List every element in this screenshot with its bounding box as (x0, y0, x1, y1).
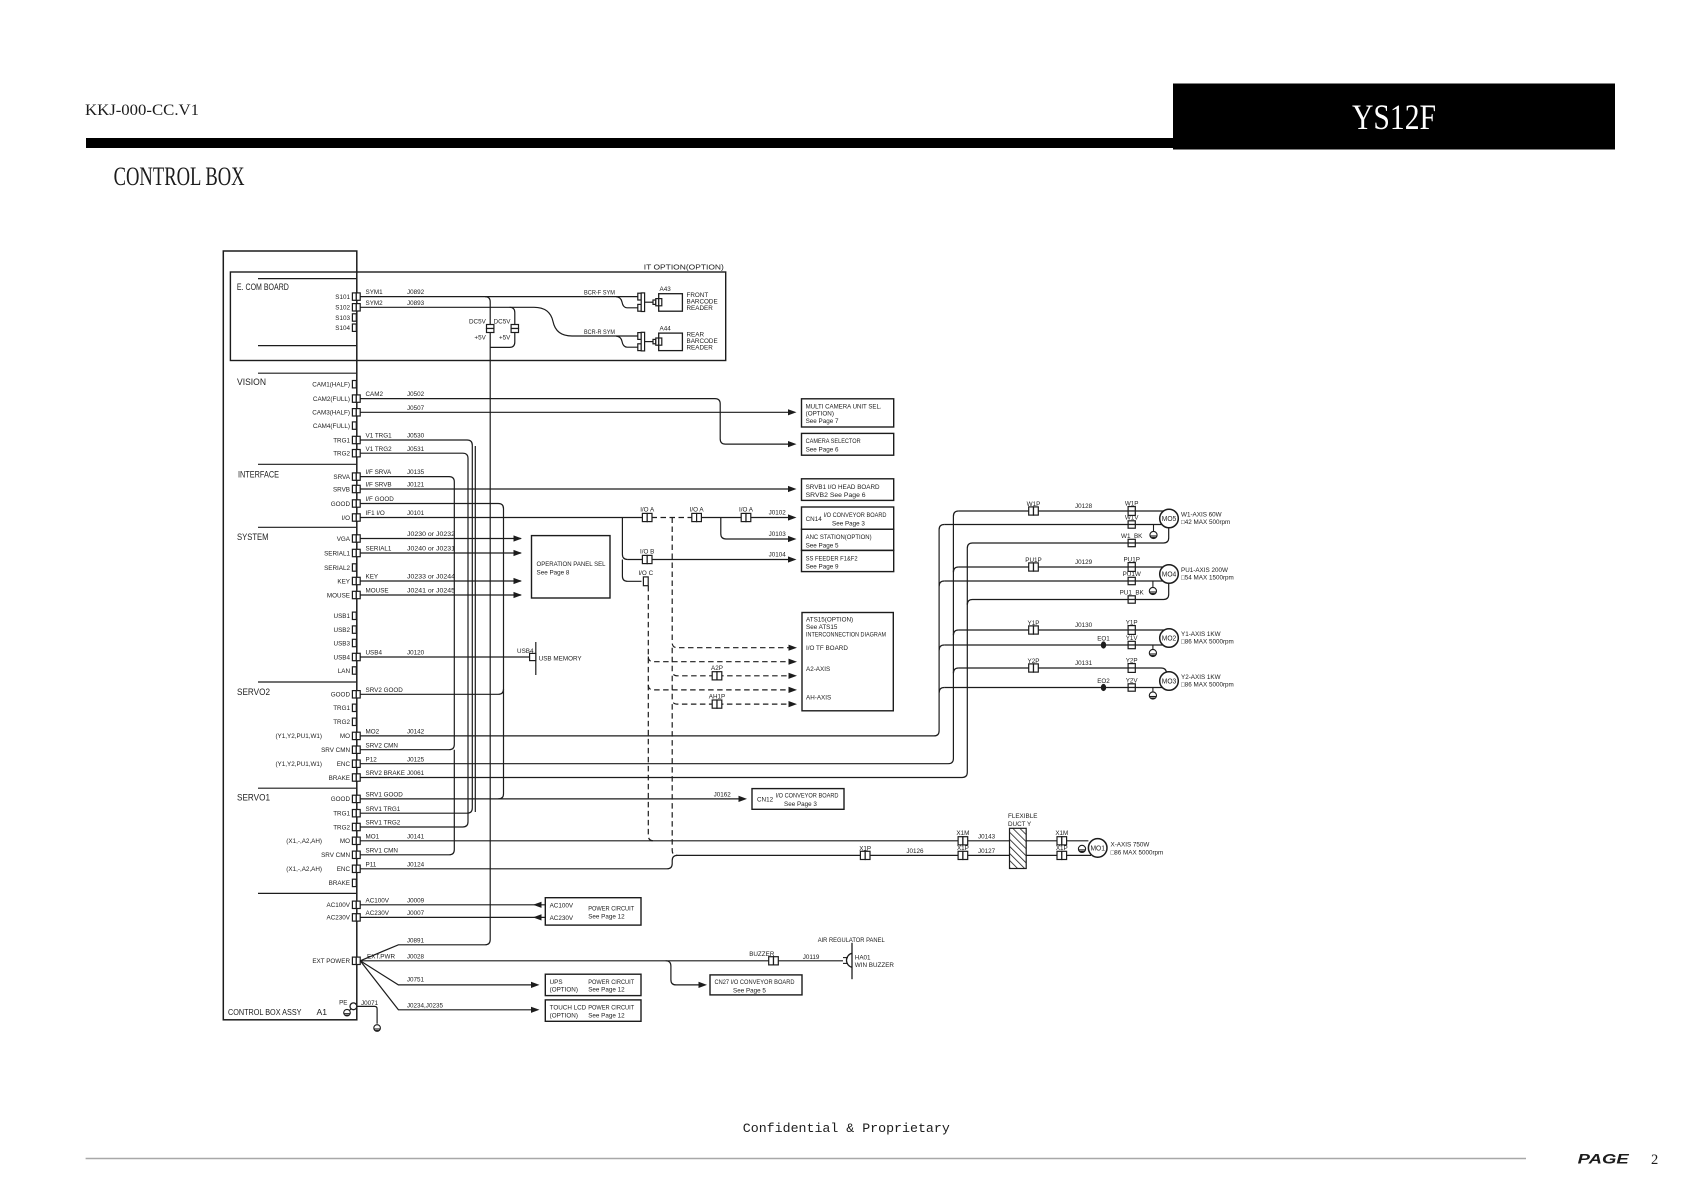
wire W1P power row J0128 (959, 510, 1164, 512)
svg-text:POWER CIRCUIT: POWER CIRCUIT (588, 979, 634, 986)
motor MO1 (1088, 839, 1107, 858)
branch of MO2 bus to Y1V row (939, 645, 944, 650)
svg-text:UPS: UPS (550, 979, 563, 986)
box SRVB1/SRVB2 I/O HEAD BOARD (802, 479, 894, 501)
svg-text:BRAKE: BRAKE (329, 880, 350, 887)
svg-text:INTERFACE: INTERFACE (238, 470, 279, 480)
ground symbol for MO4 (1152, 581, 1154, 588)
svg-text:TRG1: TRG1 (333, 811, 350, 818)
svg-text:CAM1(HALF): CAM1(HALF) (312, 382, 350, 389)
section divider SERVO1 (258, 787, 356, 789)
svg-text:S101: S101 (335, 294, 350, 301)
wire V1 TRG1 J0530 (vision TRG1 to SERVO1 TRG1) (360, 440, 472, 813)
svg-text:W1V: W1V (1125, 515, 1139, 522)
box CN12 I/O CONVEYOR BOARD (752, 789, 844, 810)
DC5V tap from SYM2 (490, 307, 515, 347)
svg-text:W1P: W1P (1125, 500, 1139, 507)
svg-text:I/O CONVEYOR BOARD: I/O CONVEYOR BOARD (776, 793, 839, 800)
svg-text:ANC STATION(OPTION): ANC STATION(OPTION) (806, 534, 872, 541)
flexible duct hatched block (1010, 828, 1027, 868)
wire W1V row (944, 524, 1162, 526)
svg-text:DUCT Y: DUCT Y (1008, 821, 1032, 828)
section divider SERVO2 (258, 681, 356, 683)
svg-text:USB4: USB4 (334, 654, 351, 661)
connector X1M (mid pair upper) (958, 837, 968, 845)
buzzer HA01 symbol (half circle) (846, 953, 852, 967)
wire I/F GOOD (to SRV2 GOOD / SRV1 GOOD bus) (360, 504, 503, 799)
svg-text:See Page 6: See Page 6 (806, 447, 839, 454)
svg-text:SERIAL2: SERIAL2 (324, 565, 350, 572)
motor MO2 (1160, 629, 1179, 648)
branch of P12 bus to Y2P row (953, 668, 958, 673)
svg-text:I/F SRVA: I/F SRVA (366, 469, 392, 476)
svg-text:See ATS15: See ATS15 (806, 624, 838, 631)
svg-text:MO: MO (340, 838, 350, 845)
wire Y1P power row J0130 (959, 629, 1165, 631)
svg-text:SRV1 CMN: SRV1 CMN (366, 847, 399, 854)
connector I/O C (single) (643, 577, 648, 586)
svg-text:(X1,-,A2,AH): (X1,-,A2,AH) (286, 866, 322, 873)
svg-text:P12: P12 (366, 756, 378, 763)
footer: rule (86, 1158, 1526, 1160)
svg-text:LAN: LAN (338, 668, 351, 675)
svg-text:CN27 I/O CONVEYOR BOARD: CN27 I/O CONVEYOR BOARD (715, 979, 795, 986)
svg-text:See Page 12: See Page 12 (588, 1012, 625, 1019)
svg-text:TRG2: TRG2 (333, 451, 350, 458)
svg-text:AC230V: AC230V (327, 915, 351, 922)
svg-text:DC5V: DC5V (469, 318, 487, 325)
connector Y1P (right) (1128, 626, 1135, 635)
connector Y2P (left) on row (1029, 664, 1039, 672)
svg-text:J0009: J0009 (407, 897, 425, 904)
svg-text:MO1: MO1 (1090, 844, 1105, 853)
USB MEMORY stub (535, 642, 537, 675)
header: thick black rule (86, 138, 1615, 148)
svg-text:ENC: ENC (337, 761, 351, 768)
svg-text:CN14: CN14 (806, 516, 823, 523)
svg-text:J0891: J0891 (407, 938, 425, 945)
svg-text:CN12: CN12 (757, 797, 774, 804)
wire IF1 I/O J0101 (to CN14 I/O conveyor board) (360, 517, 647, 519)
wire SRV2 BRAKE J0061 (brake bus, feeds W1_BK/PU1_BK) (360, 543, 972, 778)
wire I/F SRVB J0121 (to I/O head board) (360, 488, 788, 490)
svg-text:SYSTEM: SYSTEM (237, 532, 269, 542)
svg-text:MO1: MO1 (366, 833, 380, 840)
svg-text:J0028: J0028 (407, 953, 425, 960)
box CN14 I/O CONVEYOR BOARD (802, 507, 894, 529)
wire SERIAL1 J0240 or J0231 (360, 552, 521, 554)
svg-text:□86 MAX 5000rpm: □86 MAX 5000rpm (1181, 682, 1234, 689)
svg-text:PU1_BK: PU1_BK (1120, 590, 1145, 597)
svg-text:CONTROL BOX ASSY: CONTROL BOX ASSY (228, 1007, 302, 1017)
box MULTI CAMERA UNIT SEL (802, 399, 894, 427)
connector Y2V (1128, 684, 1135, 691)
wire P12 J0125 (servo2 encoder bus, feeds W1P/PU1P/Y1P/Y2P) (360, 511, 958, 764)
svg-text:+5V: +5V (499, 335, 511, 342)
svg-text:X-AXIS 750W: X-AXIS 750W (1111, 842, 1150, 849)
svg-text:MO3: MO3 (1162, 677, 1177, 686)
svg-text:AC100V: AC100V (327, 902, 351, 909)
svg-text:X1P: X1P (957, 845, 969, 852)
svg-text:See Page 7: See Page 7 (806, 418, 839, 425)
svg-text:V1 TRG1: V1 TRG1 (366, 433, 393, 440)
connector Y1P (left) on row (1029, 626, 1039, 634)
IT OPTION enclosure box (230, 272, 725, 361)
svg-text:J0128: J0128 (1075, 503, 1093, 510)
svg-text:SRV CMN: SRV CMN (321, 747, 350, 754)
svg-text:USB2: USB2 (334, 627, 351, 634)
wire MO2 J0142 (servo2 motor bus, feeds W1V/PU1W/Y1V/Y2V) (360, 525, 944, 736)
svg-text:J0135: J0135 (407, 469, 425, 476)
svg-text:See Page 3: See Page 3 (784, 801, 817, 808)
splice EO1 (1101, 641, 1106, 648)
wire J0751 (to UPS power circuit) (360, 961, 534, 985)
box A44 barcode reader (659, 333, 683, 351)
svg-text:W1-AXIS 60W: W1-AXIS 60W (1181, 511, 1222, 518)
svg-text:J0240 or J0231: J0240 or J0231 (407, 546, 456, 553)
svg-text:(X1,-,A2,AH): (X1,-,A2,AH) (286, 838, 322, 845)
svg-text:EXT POWER: EXT POWER (312, 958, 350, 965)
svg-text:KKJ-000-CC.V1: KKJ-000-CC.V1 (85, 102, 199, 119)
svg-text:J0233 or J0244: J0233 or J0244 (407, 574, 456, 581)
svg-text:PAGE: PAGE (1578, 1152, 1630, 1167)
svg-text:2: 2 (1651, 1152, 1658, 1168)
svg-text:Y2V: Y2V (1126, 678, 1139, 685)
svg-text:J0061: J0061 (407, 770, 425, 777)
svg-text:(Y1,Y2,PU1,W1): (Y1,Y2,PU1,W1) (275, 733, 322, 740)
box OPERATION PANEL SEL (532, 536, 611, 598)
svg-text:I/O: I/O (342, 515, 350, 522)
svg-text:TRG2: TRG2 (333, 824, 350, 831)
svg-text:I/O A: I/O A (640, 507, 655, 514)
ground symbol for MO2 (1152, 645, 1154, 650)
svg-text:J0241 or J0245: J0241 or J0245 (407, 588, 456, 595)
connector Y2P (right) (1128, 664, 1135, 673)
svg-text:J0007: J0007 (407, 910, 425, 917)
connector W1P (right) (1128, 507, 1135, 516)
dashed axis bus A (I/O C to ATS15 rows / MO1 wire) (648, 586, 653, 841)
wire Y1V row (944, 644, 1163, 646)
svg-text:PE: PE (339, 999, 347, 1006)
DC5V connector 1 (487, 325, 494, 333)
svg-text:J0124: J0124 (407, 861, 425, 868)
svg-text:See Page 5: See Page 5 (806, 543, 839, 550)
svg-text:J0143: J0143 (978, 833, 996, 840)
motor MO4 (1160, 565, 1179, 584)
svg-text:A44: A44 (660, 326, 672, 333)
svg-text:I/F GOOD: I/F GOOD (366, 496, 395, 503)
svg-text:SRV2 BRAKE: SRV2 BRAKE (366, 770, 405, 777)
connector pair to A44 barcode reader (638, 332, 645, 351)
svg-text:USB4: USB4 (366, 650, 383, 657)
connector I/O A #2 (692, 513, 702, 521)
svg-text:USB3: USB3 (334, 640, 351, 647)
svg-text:SRVB: SRVB (333, 486, 350, 493)
svg-text:EO1: EO1 (1097, 635, 1110, 642)
svg-text:SERIAL1: SERIAL1 (324, 550, 350, 557)
svg-text:J0507: J0507 (407, 405, 425, 412)
svg-text:I/O A: I/O A (690, 507, 705, 514)
connector PU1_BK (1128, 596, 1135, 603)
svg-text:+5V: +5V (474, 335, 486, 342)
DC5V tap from SYM1 (long +5V feed line down to J0891) (360, 297, 490, 961)
branch of MO2 bus to PU1W row (939, 581, 944, 586)
svg-text:X1M: X1M (956, 830, 969, 837)
svg-text:AH1P: AH1P (709, 694, 725, 701)
svg-text:See Page 12: See Page 12 (588, 913, 625, 920)
svg-text:PU1P: PU1P (1123, 556, 1139, 563)
svg-text:I/O C: I/O C (638, 570, 653, 577)
svg-text:I/F SRVB: I/F SRVB (366, 482, 392, 489)
svg-text:PU1-AXIS 200W: PU1-AXIS 200W (1181, 567, 1228, 574)
svg-text:A2P: A2P (711, 665, 723, 672)
svg-text:BUZZER: BUZZER (749, 951, 775, 958)
svg-text:W1_BK: W1_BK (1121, 533, 1143, 540)
svg-text:A43: A43 (660, 286, 672, 293)
svg-text:J0892: J0892 (407, 289, 425, 296)
section divider POWER (258, 892, 356, 894)
svg-text:Y2P: Y2P (1028, 658, 1040, 665)
svg-text:SRVB2 See Page 6: SRVB2 See Page 6 (806, 492, 867, 499)
svg-text:J0131: J0131 (1075, 660, 1093, 667)
section divider SYSTEM (258, 526, 356, 528)
box CAMERA SELECTOR (802, 433, 894, 455)
svg-text:SRV1 TRG2: SRV1 TRG2 (366, 820, 401, 827)
svg-text:S103: S103 (335, 315, 350, 322)
svg-text:J0234,J0235: J0234,J0235 (407, 1002, 444, 1009)
connector PU1P (right) (1128, 563, 1135, 572)
wire W1_BK brake row (973, 528, 1169, 543)
wire CAM2 J0502 (to camera selector) (360, 399, 788, 445)
svg-text:MO4: MO4 (1162, 570, 1177, 579)
connector A2P on dashed A2-AXIS row (712, 672, 722, 680)
wire KEY J0233 or J0244 (360, 580, 521, 582)
svg-text:J0130: J0130 (1075, 622, 1093, 629)
svg-text:CAM2(FULL): CAM2(FULL) (313, 396, 350, 403)
svg-text:J0893: J0893 (407, 300, 425, 307)
box TOUCH LCD POWER CIRCUIT (545, 1000, 641, 1021)
svg-text:X1P: X1P (859, 846, 871, 853)
svg-text:X1P: X1P (1056, 845, 1068, 852)
connector I/O B (642, 555, 652, 563)
svg-text:INTERCONNECTION DIAGRAM: INTERCONNECTION DIAGRAM (806, 632, 886, 639)
svg-text:J0530: J0530 (407, 433, 425, 440)
svg-text:TOUCH LCD: TOUCH LCD (550, 1005, 587, 1012)
svg-text:TRG1: TRG1 (333, 705, 350, 712)
branch from I/O wire down to I/O B and I/O C (622, 518, 627, 560)
svg-text:EO2: EO2 (1097, 678, 1110, 685)
svg-text:CAM3(HALF): CAM3(HALF) (312, 410, 350, 417)
connector AH1P on dashed AH-AXIS row (712, 700, 722, 708)
wire J0234,J0235 (to touch LCD power circuit) (360, 961, 534, 1010)
box POWER CIRCUIT (AC) (545, 898, 641, 925)
svg-text:CONTROL BOX: CONTROL BOX (114, 162, 245, 191)
svg-text:CAM2: CAM2 (366, 391, 384, 398)
svg-text:HA01: HA01 (855, 955, 871, 962)
PE earth wire (357, 1006, 377, 1023)
svg-text:See Page 9: See Page 9 (806, 564, 839, 571)
connector pair to A43 barcode reader (638, 293, 645, 312)
svg-text:□86 MAX 5000rpm: □86 MAX 5000rpm (1111, 849, 1164, 856)
air regulator panel bar (851, 943, 853, 979)
wire PU1P power row J0129 (959, 566, 1163, 568)
svg-text:ENC: ENC (337, 866, 351, 873)
svg-text:J0126: J0126 (906, 848, 924, 855)
wire V1 TRG2 J0531 (vision TRG2 to SERVO1 TRG2) (360, 453, 468, 827)
svg-text:See Page 12: See Page 12 (588, 987, 625, 994)
svg-text:Y1-AXIS 1KW: Y1-AXIS 1KW (1181, 631, 1221, 638)
connector PU1P (left) on row (1029, 563, 1039, 571)
svg-text:SRVB1 I/O HEAD BOARD: SRVB1 I/O HEAD BOARD (806, 484, 880, 491)
wire SYM1 J0892 (S101 to front barcode reader) (360, 296, 638, 298)
wire EXT.PWR J0028 (to buzzer and CN27) (360, 960, 843, 962)
svg-text:FLEXIBLE: FLEXIBLE (1008, 813, 1037, 820)
svg-text:(Y1,Y2,PU1,W1): (Y1,Y2,PU1,W1) (275, 761, 322, 768)
wire AC230V J0007 (from power circuit) (360, 916, 545, 918)
svg-text:SERIAL1: SERIAL1 (366, 546, 392, 553)
wire I/F SRVA J0135 (to SRV CMN bus) (360, 477, 454, 750)
svg-text:S104: S104 (335, 325, 350, 332)
wire VGA J0230 or J0232 (to operation panel) (360, 538, 521, 540)
svg-text:I/O CONVEYOR BOARD: I/O CONVEYOR BOARD (824, 512, 887, 519)
svg-text:(OPTION): (OPTION) (806, 410, 834, 417)
svg-text:S102: S102 (335, 305, 350, 312)
svg-text:See Page 3: See Page 3 (832, 520, 865, 527)
svg-text:TRG1: TRG1 (333, 437, 350, 444)
PE earth stub (350, 1009, 352, 1011)
svg-text:AH-AXIS: AH-AXIS (806, 695, 831, 702)
svg-text:J0141: J0141 (407, 833, 425, 840)
svg-text:READER: READER (687, 345, 714, 352)
svg-text:J0129: J0129 (1075, 559, 1093, 566)
svg-text:Y1V: Y1V (1126, 635, 1139, 642)
svg-text:SRV2 CMN: SRV2 CMN (366, 742, 399, 749)
box CN27 I/O CONVEYOR BOARD (710, 975, 802, 995)
svg-text:J0502: J0502 (407, 391, 425, 398)
wire SRV1 GOOD J0162 (to CN12 I/O conveyor board) (360, 798, 738, 800)
connector W1V (1128, 521, 1135, 528)
wire MO1 J0141 (X-axis motor power) (360, 840, 1088, 842)
svg-text:J0162: J0162 (714, 791, 732, 798)
dashed axis bus B (I/O A to I/O TF board, A2/AH rows, X encoder wire) (672, 518, 788, 648)
svg-text:AC230V: AC230V (550, 915, 574, 922)
svg-text:VISION: VISION (237, 377, 266, 387)
branch from I/O wire to ANC STATION J0103 (721, 518, 789, 540)
svg-text:AIR REGULATOR PANEL: AIR REGULATOR PANEL (818, 937, 885, 944)
connector Y1V (1128, 641, 1135, 648)
connector X1P (mid pair lower) (958, 851, 968, 859)
svg-text:OPERATION PANEL SEL: OPERATION PANEL SEL (537, 561, 606, 568)
box UPS POWER CIRCUIT (545, 974, 641, 995)
svg-text:USB4: USB4 (517, 648, 534, 655)
svg-text:GOOD: GOOD (331, 692, 351, 699)
dashed branch to ATS15 row 1 (648, 657, 788, 662)
svg-text:IT OPTION(OPTION): IT OPTION(OPTION) (644, 262, 724, 271)
splice EO2 (1101, 684, 1106, 691)
svg-text:V1 TRG2: V1 TRG2 (366, 446, 393, 453)
box SS FEEDER F1&F2 (802, 550, 894, 571)
svg-text:Confidential & Proprietary: Confidential & Proprietary (743, 1121, 950, 1136)
wire PU1_BK brake row (973, 583, 1169, 599)
dashed branch to ATS15 row 2 (648, 685, 788, 690)
svg-text:J0127: J0127 (978, 848, 996, 855)
svg-text:A2-AXIS: A2-AXIS (806, 666, 830, 673)
svg-text:J0230 or J0232: J0230 or J0232 (407, 531, 456, 538)
svg-text:A1: A1 (317, 1007, 328, 1017)
svg-text:IF1 I/O: IF1 I/O (366, 510, 385, 517)
svg-text:BRAKE: BRAKE (329, 775, 350, 782)
svg-text:TRG2: TRG2 (333, 719, 350, 726)
svg-text:VGA: VGA (337, 536, 351, 543)
svg-text:SRVA: SRVA (333, 474, 350, 481)
svg-text:KEY: KEY (366, 574, 379, 581)
svg-text:□42 MAX 500rpm: □42 MAX 500rpm (1181, 519, 1230, 526)
svg-text:I/O A: I/O A (739, 507, 754, 514)
connector BUZZER on EXT.PWR wire (769, 957, 779, 965)
svg-text:CAM4(FULL): CAM4(FULL) (313, 423, 350, 430)
svg-text:GOOD: GOOD (331, 796, 351, 803)
motor MO3 (1160, 672, 1179, 691)
box A43 barcode reader (659, 294, 683, 312)
wire J0507 (CAM3 to multi camera unit) (360, 411, 788, 413)
svg-text:SRV1 GOOD: SRV1 GOOD (366, 792, 404, 799)
ground symbol at MO1 (1078, 845, 1085, 852)
section divider VISION (258, 372, 356, 374)
wire MOUSE J0241 or J0245 (360, 594, 521, 596)
DC5V connector 2 (511, 325, 518, 333)
svg-text:J0751: J0751 (407, 977, 425, 984)
svg-text:AC230V: AC230V (366, 910, 390, 917)
ground symbol at PE (344, 1009, 351, 1016)
branch of P12 bus to PU1P row (953, 567, 958, 572)
control box assy outline (223, 251, 356, 1020)
svg-text:BCR-F SYM: BCR-F SYM (584, 289, 615, 296)
svg-text:□54 MAX 1500rpm: □54 MAX 1500rpm (1181, 575, 1234, 582)
svg-text:□86 MAX 5000rpm: □86 MAX 5000rpm (1181, 639, 1234, 646)
svg-text:BCR-R SYM: BCR-R SYM (584, 329, 615, 336)
svg-text:DC5V: DC5V (494, 318, 512, 325)
section divider INTERFACE (258, 463, 356, 465)
svg-text:J0125: J0125 (407, 756, 425, 763)
svg-text:ATS15(OPTION): ATS15(OPTION) (806, 617, 853, 624)
svg-text:MO5: MO5 (1162, 514, 1177, 523)
svg-text:KEY: KEY (337, 578, 350, 585)
connector X1P (left single) on encoder row (860, 851, 870, 859)
svg-text:READER: READER (687, 305, 714, 312)
svg-text:See Page 5: See Page 5 (733, 988, 766, 995)
branch of brake bus to PU1_BK row (967, 600, 972, 605)
wire Y2P power row J0131 (959, 668, 1167, 674)
connector X1P (right lower) (1057, 851, 1067, 859)
svg-text:POWER CIRCUIT: POWER CIRCUIT (588, 905, 634, 912)
svg-text:I/O B: I/O B (640, 549, 654, 556)
box ATS15 (OPTION) interconnection (802, 613, 893, 711)
wire Y2V row (944, 687, 1162, 689)
svg-text:SS FEEDER F1&F2: SS FEEDER F1&F2 (806, 555, 858, 562)
svg-text:MO2: MO2 (366, 729, 380, 736)
connector W1P (left) on row (1029, 507, 1039, 515)
svg-text:USB1: USB1 (334, 613, 351, 620)
svg-text:J0104: J0104 (769, 552, 787, 559)
branch of MO2 bus to Y2V row (939, 688, 944, 693)
svg-text:YS12F: YS12F (1352, 97, 1436, 137)
wire I/O B row (to SS FEEDER) (628, 559, 789, 561)
svg-text:(OPTION): (OPTION) (550, 987, 578, 994)
connector I/O A #3 (741, 513, 751, 521)
wire SRV CMN bus continuation to SRV1 CMN (360, 750, 454, 855)
svg-text:AC100V: AC100V (550, 902, 574, 909)
svg-text:I/O TF BOARD: I/O TF BOARD (806, 645, 848, 652)
